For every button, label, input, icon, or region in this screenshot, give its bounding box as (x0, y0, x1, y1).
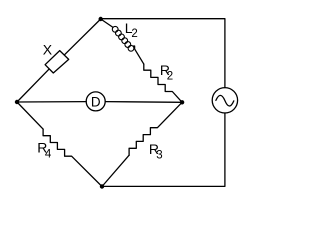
svg-text:4: 4 (45, 149, 52, 161)
svg-text:X: X (43, 42, 53, 58)
svg-text:3: 3 (156, 150, 162, 162)
svg-text:2: 2 (131, 28, 137, 40)
svg-text:D: D (91, 95, 101, 110)
svg-text:2: 2 (167, 70, 173, 82)
